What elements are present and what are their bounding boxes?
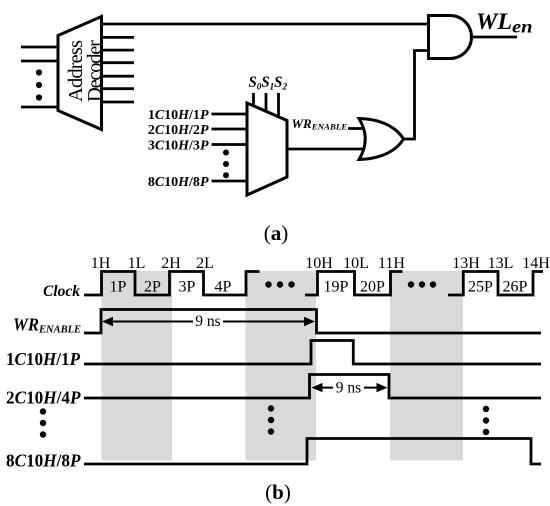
wire decoder input 2	[21, 60, 58, 63]
wire WL_en output	[472, 36, 518, 39]
wire mux input 8C10H/8P	[212, 180, 248, 183]
svg-text:11H: 11H	[378, 255, 405, 272]
or-gate U4	[359, 119, 404, 160]
svg-text:8C10H/8P: 8C10H/8P	[6, 451, 81, 471]
wire mux output	[287, 148, 366, 151]
svg-text:1C10H/1P: 1C10H/1P	[6, 349, 80, 369]
clock period labels	[110, 279, 528, 296]
svg-text:Clock: Clock	[43, 283, 80, 300]
wires mux inputs	[212, 114, 248, 181]
wire decoder output 5	[102, 87, 135, 90]
svg-text:2L: 2L	[196, 255, 214, 272]
svg-text:25P: 25P	[468, 279, 493, 296]
svg-text:(a): (a)	[264, 221, 289, 245]
wire decoder output 2	[102, 49, 135, 52]
mux U2 input labels	[148, 108, 209, 190]
wires decoder inputs	[21, 47, 58, 107]
wire mux input 2C10H/2P	[212, 128, 248, 131]
decoder label: Address Decoder (rotated)	[65, 40, 106, 102]
arrowhead left row WR	[102, 317, 113, 326]
gray band 3	[390, 271, 463, 461]
WR_ENABLE waveform	[84, 310, 541, 334]
svg-text:19P: 19P	[324, 279, 349, 296]
svg-text:14H: 14H	[522, 255, 550, 272]
svg-text:3C10H/3P: 3C10H/3P	[148, 139, 209, 154]
svg-text:2C10H/2P: 2C10H/2P	[148, 123, 209, 138]
wire decoder output 1	[102, 36, 135, 39]
decoder input ellipsis dots	[36, 69, 42, 100]
9ns arrow shafts row WR	[106, 321, 311, 323]
clock ellipsis 1	[265, 281, 294, 287]
svg-text:WRENABLE: WRENABLE	[13, 315, 81, 336]
wires mux select inputs	[254, 93, 279, 118]
svg-text:13H: 13H	[452, 255, 480, 272]
8C10H/8P waveform	[84, 439, 541, 465]
svg-text:1P: 1P	[110, 279, 127, 296]
svg-text:WLen: WLen	[476, 9, 533, 36]
svg-text:S0S1S2: S0S1S2	[249, 74, 288, 93]
svg-text:2C10H/4P: 2C10H/4P	[6, 388, 81, 408]
wire decoder output 0 (to AND gate U3 top input)	[102, 23, 429, 26]
arrowhead right row 2C	[377, 383, 388, 392]
wire select S0	[252, 93, 255, 107]
wire decoder input 1	[21, 46, 58, 49]
and-gate U3	[429, 16, 472, 59]
svg-text:AddressDecoder: AddressDecoder	[65, 40, 106, 102]
svg-text:2H: 2H	[161, 255, 181, 272]
wire mux input 3C10H/3P	[212, 143, 248, 146]
svg-text:10H: 10H	[305, 255, 333, 272]
arrowhead right row WR	[304, 317, 315, 326]
svg-text:8C10H/8P: 8C10H/8P	[148, 175, 209, 190]
wire mux input 1C10H/1P	[212, 113, 248, 116]
clock waveform segment 2	[305, 272, 403, 296]
ellipsis column right	[483, 406, 489, 435]
clock ellipsis 2	[408, 281, 436, 287]
svg-text:3P: 3P	[179, 279, 196, 296]
arrowhead left row 2C	[312, 383, 323, 392]
svg-text:(b): (b)	[265, 480, 291, 504]
clock edge labels	[91, 255, 550, 272]
wire decoder output 4	[102, 75, 135, 78]
svg-text:10L: 10L	[343, 255, 369, 272]
svg-text:9 ns: 9 ns	[195, 313, 220, 330]
mux U2 (trapezoid)	[247, 103, 287, 195]
wire WR_ENABLE to OR gate	[348, 127, 366, 130]
svg-text:26P: 26P	[503, 279, 528, 296]
wire OR output to AND input	[404, 51, 429, 140]
clock waveform segment 3	[448, 272, 543, 296]
svg-text:1H: 1H	[91, 255, 111, 272]
svg-text:4P: 4P	[215, 279, 232, 296]
wire select S1	[265, 93, 268, 113]
wire decoder output 6	[102, 101, 135, 104]
mux input ellipsis dots	[223, 150, 229, 179]
1C10H/1P waveform	[84, 341, 541, 365]
svg-text:WRENABLE: WRENABLE	[292, 116, 348, 132]
svg-text:1L: 1L	[128, 255, 146, 272]
svg-text:13L: 13L	[488, 255, 514, 272]
svg-text:20P: 20P	[360, 279, 385, 296]
wire decoder input 3	[21, 106, 58, 109]
svg-text:1C10H/1P: 1C10H/1P	[148, 108, 209, 123]
ellipsis column mid	[268, 405, 274, 434]
wires decoder outputs 1-6	[102, 37, 135, 102]
gray band 2	[246, 271, 317, 461]
wire select S2	[277, 93, 280, 118]
gray band 1	[102, 271, 173, 461]
svg-text:2P: 2P	[144, 279, 161, 296]
ellipsis column left (label area)	[40, 408, 46, 437]
clock waveform segment 1	[84, 272, 260, 296]
9ns arrow shafts row 2C	[315, 387, 384, 389]
svg-text:9 ns: 9 ns	[336, 380, 361, 397]
2C10H/4P waveform	[84, 375, 541, 399]
wire decoder output 3	[102, 61, 135, 64]
decoder U1 (Address Decoder trapezoid)	[58, 17, 102, 130]
